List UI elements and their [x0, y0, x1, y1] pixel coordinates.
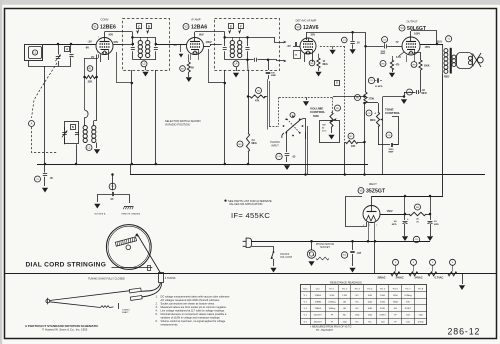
drum base line: [112, 267, 153, 269]
svg-text:CONV: CONV: [100, 18, 108, 22]
svg-text:DET-AVC-AF AMP: DET-AVC-AF AMP: [296, 20, 317, 23]
oscillator feedback hook: [85, 110, 89, 118]
wire bus link x130: [130, 164, 132, 175]
cord long run: [50, 291, 131, 301]
svg-text:measurements.: measurements.: [161, 323, 179, 327]
V3 heater leads: [304, 54, 306, 62]
svg-text:.047: .047: [357, 252, 362, 255]
svg-text:12BA6: 12BA6: [191, 25, 207, 31]
trimmer label A: [65, 47, 70, 52]
V2 grid-return arrow: [181, 44, 187, 46]
ground T2: [236, 67, 238, 71]
V5 heater drops: [368, 223, 370, 242]
T1 input wire from V1 plate: [123, 44, 133, 46]
svg-text:Pin 5: Pin 5: [380, 288, 386, 290]
svg-text:0Ω: 0Ω: [394, 308, 397, 310]
wire heater drop x375: [374, 241, 376, 273]
pointer bracket: [118, 303, 120, 309]
svg-text:35Z5GT: 35Z5GT: [314, 321, 323, 323]
svg-text:Line voltage maintained at 117: Line voltage maintained at 117 volts for…: [161, 309, 226, 313]
shield box dashed left: [278, 97, 280, 127]
wire loop down to bus: [44, 66, 46, 164]
trimmer capacitor: [70, 44, 72, 53]
svg-text:Pin 6: Pin 6: [393, 288, 399, 290]
capacitor C13 .05 chassis: [109, 183, 116, 190]
T3 secondary winding: [452, 55, 456, 59]
svg-text:47K: 47K: [255, 100, 260, 103]
wire V3 plate drop x365: [365, 32, 367, 92]
speaker cone: [473, 54, 482, 68]
wire AF line y96: [336, 96, 365, 98]
tone potentiometer: [378, 103, 380, 112]
svg-text:variation of ±15% in voltage a: variation of ±15% in voltage and resista…: [161, 316, 221, 320]
V3 grid resistor 10 MEG: [309, 60, 315, 66]
svg-text:-.5V: -.5V: [87, 40, 92, 44]
AC plug: [243, 241, 247, 246]
heater resistor 4: [448, 272, 457, 276]
wire cap top stub: [112, 183, 114, 190]
T1 secondary winding: [146, 40, 150, 44]
svg-text:25Ω: 25Ω: [355, 315, 359, 317]
svg-text:MFD: MFD: [392, 224, 397, 226]
V3 grid resistor box: [294, 51, 301, 59]
V4 grid resistor 500K: [411, 62, 417, 68]
wire plug to switch: [252, 247, 274, 253]
svg-text:25Ω: 25Ω: [342, 321, 346, 323]
svg-text:40Ω: 40Ω: [368, 308, 372, 310]
V2 screen lead: [194, 32, 196, 38]
svg-text:40%: 40%: [322, 131, 326, 133]
heater resistor 1: [391, 272, 400, 276]
wire filter drops: [404, 196, 406, 214]
wire AC return bus y273: [5, 273, 496, 275]
svg-text:Pin 1: Pin 1: [329, 288, 335, 290]
cord spring: [101, 306, 114, 308]
svg-text:34VAC: 34VAC: [415, 275, 423, 279]
line bypass cap .047: [350, 251, 354, 253]
shielded detector lead double line: [267, 79, 269, 130]
svg-text:VALUES OR APPLICATION.: VALUES OR APPLICATION.: [229, 202, 263, 206]
svg-text:1.: 1.: [156, 294, 158, 298]
scan edge band top: [0, 0, 500, 5]
T2 secondary winding: [238, 40, 242, 44]
wire 383 drop: [382, 97, 384, 175]
speaker voice coil: [468, 56, 472, 60]
wire plug to AC bus: [252, 241, 256, 243]
tone network box: [378, 127, 380, 138]
shield box dashed right: [332, 97, 334, 112]
svg-text:500K: 500K: [424, 66, 430, 68]
svg-text:TAP: TAP: [322, 124, 327, 127]
svg-text:750Ω: 750Ω: [393, 302, 399, 304]
wire AC bus y241: [251, 241, 430, 243]
svg-text:DIAL CORD STRINGING: DIAL CORD STRINGING: [26, 262, 107, 269]
svg-text:B: B: [72, 126, 74, 129]
svg-text:D: D: [148, 24, 150, 28]
svg-text:25Ω: 25Ω: [368, 315, 372, 317]
detector capacitor 100MMF: [248, 59, 254, 61]
svg-text:100V: 100V: [206, 40, 212, 44]
svg-text:Pin 3: Pin 3: [355, 288, 361, 290]
svg-text:3 TURNS: 3 TURNS: [165, 277, 176, 280]
svg-text:MEG: MEG: [370, 119, 376, 122]
svg-text:IN RADIO POSITION.: IN RADIO POSITION.: [165, 123, 191, 127]
V4 screen lead: [410, 31, 412, 37]
V4 plate lead BLU: [420, 44, 443, 46]
tube V2 12BA6: [187, 38, 204, 55]
svg-text:470K†: 470K†: [379, 315, 386, 317]
svg-text:MMF: MMF: [389, 152, 395, 154]
ground left chassis: [94, 204, 100, 209]
svg-text:Pin 4: Pin 4: [367, 288, 373, 290]
svg-text:95V: 95V: [109, 32, 114, 36]
electrolytic C11A 40MFD: [403, 221, 408, 223]
T1 bottom wire: [133, 59, 156, 61]
svg-text:A: A: [66, 48, 68, 51]
volume potentiometer R5: [330, 112, 333, 127]
AVC dashed vertical: [344, 46, 346, 142]
T1 core label L3: [141, 61, 147, 67]
heater resistor 3: [428, 272, 437, 276]
svg-text:150V: 150V: [387, 209, 393, 213]
ground AF return: [401, 99, 407, 104]
V1 screen lead: [104, 32, 106, 38]
V3 plate top lead: [306, 32, 308, 40]
svg-text:2.: 2.: [156, 301, 158, 305]
svg-text:MMF: MMF: [381, 53, 386, 55]
chassis hatch symbol: [124, 206, 134, 208]
ground phono cap: [284, 165, 290, 170]
T2 secondary capacitor: [247, 37, 249, 46]
V2 plate lead: [204, 46, 211, 48]
svg-text:G: G: [336, 81, 338, 84]
svg-text:500K: 500K: [313, 115, 319, 118]
svg-text:10Meg: 10Meg: [328, 308, 335, 310]
cord guide rect 2: [130, 295, 142, 300]
T2 secondary top wire to diode: [248, 37, 276, 39]
svg-text:OUTPUT: OUTPUT: [406, 20, 418, 24]
svg-text:CONTROL: CONTROL: [310, 110, 325, 114]
svg-text:22K: 22K: [88, 80, 93, 84]
T1 trimmer labels: [137, 24, 142, 29]
svg-text:12AV6: 12AV6: [303, 25, 319, 31]
svg-text:0Ω: 0Ω: [343, 308, 346, 310]
boxed label G: [335, 81, 340, 86]
svg-text:SEE PARTS LIST FOR ALTERNATE: SEE PARTS LIST FOR ALTERNATE: [228, 199, 272, 203]
tube V1 12BE6: [96, 38, 113, 55]
svg-text:1050: 1050: [329, 295, 335, 297]
wire C8 grid riser: [420, 70, 422, 92]
svg-text:IF AMP: IF AMP: [191, 18, 200, 22]
dial drum: [106, 225, 151, 270]
V5 cathode lead 150V: [380, 214, 405, 216]
svg-text:SELECTOR SWITCH SHOWN: SELECTOR SWITCH SHOWN: [165, 119, 201, 123]
svg-text:12AV6: 12AV6: [315, 307, 322, 310]
IF transformer T1 dashed box: [123, 19, 170, 71]
switch cluster label: [290, 113, 295, 118]
svg-text:MFD: MFD: [434, 224, 439, 226]
svg-text:5.3Meg: 5.3Meg: [404, 295, 412, 297]
svg-text:0Ω: 0Ω: [343, 302, 346, 304]
svg-text:3.5V: 3.5V: [396, 56, 401, 59]
svg-text:+: +: [407, 217, 409, 221]
svg-text:Pin 7: Pin 7: [405, 288, 411, 290]
V5 pin jumper loop: [346, 197, 367, 227]
svg-text:C: C: [138, 24, 140, 28]
dial cord tangent: [137, 234, 161, 274]
oscillator tuning capacitor C1B: [64, 127, 66, 130]
ground T1: [145, 67, 147, 70]
V4 screen drop: [436, 31, 438, 44]
svg-text:Pin 2: Pin 2: [342, 288, 348, 290]
svg-text:Measured values are from socke: Measured values are from socket pin to c…: [161, 305, 227, 309]
output transformer T3: [446, 36, 452, 42]
capacitor C2 .05: [35, 176, 41, 182]
svg-text:6.: 6.: [156, 319, 158, 323]
ground oscillator: [96, 143, 98, 149]
V3 grid capacitor: [293, 46, 300, 48]
svg-text:0.7VAC: 0.7VAC: [435, 275, 444, 279]
AVC dashed stub: [320, 46, 345, 48]
V2 heater leads: [190, 54, 192, 60]
loop antenna L1: [25, 45, 43, 61]
T2 core label L4: [233, 61, 239, 67]
C11 label: [413, 236, 419, 242]
svg-text:RECT: RECT: [369, 182, 377, 186]
svg-text:95V: 95V: [199, 32, 204, 36]
heater resistor 2: [409, 272, 418, 276]
svg-text:28VAC: 28VAC: [378, 275, 386, 279]
T2 trimmer labels: [229, 24, 234, 29]
svg-text:12BA6: 12BA6: [314, 301, 321, 304]
svg-text:© Howard W. Sams & Co., Inc: © Howard W. Sams & Co., Inc. 1955: [42, 328, 88, 332]
line bypass R10: [341, 252, 347, 258]
IF transformer T2 dashed box: [215, 19, 280, 71]
wire osc bottom to bus: [76, 144, 78, 164]
wire grid line y44: [43, 44, 97, 46]
svg-text:NC: NC: [356, 302, 360, 304]
gang link label: [29, 121, 35, 127]
T1 B+ drop: [140, 58, 142, 60]
speaker SP frame: [457, 53, 473, 69]
svg-text:50L6GT: 50L6GT: [314, 315, 323, 317]
svg-text:40Ω: 40Ω: [368, 295, 372, 297]
svg-text:3.: 3.: [156, 305, 158, 309]
svg-text:7V: 7V: [396, 41, 399, 44]
tap box: [320, 121, 340, 143]
wire B+ down from output transformer: [442, 194, 444, 196]
resistor R2 47K: [256, 88, 262, 94]
resistor R7 22K: [348, 133, 354, 139]
wire T1 legs to bus: [131, 70, 133, 164]
svg-text:5.: 5.: [156, 312, 158, 316]
V2 plate drop to T2: [208, 49, 210, 83]
oscillator trimmer box: [65, 122, 79, 144]
ground C2: [42, 188, 48, 193]
ground socket: [308, 261, 314, 266]
T1 output wire to V2 grid: [156, 44, 187, 46]
plate decoupling capacitor C7 .05: [342, 37, 348, 43]
T2 bottom wire: [225, 59, 248, 61]
svg-text:NC: NC: [343, 315, 347, 317]
svg-text:VOL CONT: VOL CONT: [280, 256, 293, 259]
svg-text:F: F: [240, 24, 242, 28]
T1 primary winding: [138, 40, 142, 44]
svg-text:BLU: BLU: [437, 40, 442, 43]
svg-text:470K: 470K: [380, 308, 386, 310]
V1 plate drop to T1: [116, 52, 118, 83]
dial cord post: [159, 273, 164, 283]
svg-text:Volume control at maximum, no-: Volume control at maximum, no-signal app…: [161, 319, 226, 323]
capacitor C10 .05: [276, 153, 282, 159]
svg-text:R10: R10: [343, 255, 346, 257]
wire osc coil top stub: [93, 121, 95, 126]
wire tone junctions: [363, 102, 366, 105]
svg-text:24Ω: 24Ω: [419, 315, 423, 317]
svg-text:NC: NC: [368, 321, 372, 323]
svg-text:RED: RED: [444, 76, 449, 79]
capacitor C9 5000MMF: [386, 132, 392, 138]
svg-text:REMOTE CHASSIS: REMOTE CHASSIS: [122, 213, 141, 216]
filter resistor R9: [415, 204, 421, 210]
ground AVC shield: [306, 97, 308, 100]
svg-text:-.5V: -.5V: [286, 44, 291, 48]
T2 primary winding: [230, 40, 234, 44]
V1 heater leads: [100, 54, 102, 62]
V1 plate lead: [113, 44, 123, 46]
ground line bypass: [349, 268, 355, 273]
tube V4 50L6GT: [402, 37, 420, 55]
svg-text:NC: NC: [356, 308, 360, 310]
svg-text:4.: 4.: [156, 309, 158, 313]
selector switch S1: [302, 125, 304, 127]
switch SW on volume control: [271, 252, 274, 259]
T1 primary capacitor: [132, 37, 134, 46]
svg-text:DC voltage measurements taken: DC voltage measurements taken with vacuu…: [161, 294, 231, 298]
resistor R1 22K: [84, 58, 86, 110]
tube V3 12AV6: [300, 38, 316, 54]
phono jack: [282, 133, 284, 138]
svg-text:OUTSIDE B-: OUTSIDE B-: [94, 214, 106, 216]
svg-text:MEG: MEG: [323, 64, 328, 66]
V4 cathode bypass cap C12: [368, 77, 374, 83]
svg-text:1050: 1050: [393, 295, 399, 297]
V1 cathode to oscillator: [94, 55, 97, 121]
svg-text:40Ω: 40Ω: [368, 302, 372, 304]
svg-text:1.5Ω: 1.5Ω: [342, 295, 347, 297]
V2 cathode resistor 68 ohm: [188, 54, 190, 62]
svg-text:NC: NC: [356, 321, 360, 323]
svg-text:SOCKET: SOCKET: [320, 246, 330, 249]
svg-text:1050: 1050: [380, 302, 386, 304]
wire loop bottom: [29, 61, 72, 67]
shield box dashed top: [279, 97, 333, 99]
svg-text:20 MFD: 20 MFD: [375, 86, 383, 88]
detector return cap: [268, 60, 270, 70]
svg-text:50L6GT: 50L6GT: [407, 26, 427, 32]
tuning capacitor C1A: [58, 44, 60, 55]
svg-text:-8V: -8V: [85, 46, 89, 50]
svg-text:SHAFT: SHAFT: [122, 311, 129, 314]
svg-text:470K†: 470K†: [405, 308, 412, 310]
svg-text:E: E: [230, 24, 232, 28]
T2 top wire: [225, 37, 248, 39]
svg-text:TP - TIE POINT: TP - TIE POINT: [316, 329, 333, 332]
T1 top wire: [133, 37, 156, 39]
svg-text:Item: Item: [303, 287, 307, 290]
coupling capacitor C8 .02MFD: [407, 89, 413, 95]
socket resistor: [316, 257, 329, 260]
shielded pair to AF: [305, 132, 307, 175]
V5 plate top lead: [371, 196, 373, 206]
T1 secondary capacitor: [155, 37, 157, 46]
wire B+ top rail: [372, 196, 444, 198]
svg-text:22K: 22K: [351, 145, 356, 148]
gang dashed link: [32, 63, 58, 118]
svg-text:12BE6: 12BE6: [100, 25, 116, 31]
resistor R6 270K: [355, 95, 361, 101]
V4 cathode resistor R8: [399, 52, 404, 56]
svg-text:MEG: MEG: [252, 143, 257, 145]
cord guide rect 1: [129, 288, 141, 293]
resistor R3 3.3 MEG AVC: [237, 141, 243, 147]
ground volume pot: [331, 127, 333, 133]
T2 primary capacitor: [224, 37, 226, 46]
svg-text:160V: 160V: [414, 32, 420, 36]
svg-text:MFD: MFD: [422, 92, 427, 95]
wire volume top to AF line: [333, 96, 336, 98]
wire B- bus y174: [130, 174, 485, 176]
svg-text:155V: 155V: [425, 46, 431, 49]
tone pot C9A label: [366, 110, 372, 116]
svg-text:TUNING GANG FULLY CLOSED: TUNING GANG FULLY CLOSED: [88, 278, 125, 281]
parts list note: [224, 200, 226, 202]
svg-text:PHONO: PHONO: [270, 140, 280, 144]
electrolytic C11B 30MFD: [428, 221, 433, 223]
T2 right leg down: [248, 70, 250, 133]
switch arm wires: [300, 119, 306, 140]
oscillator trimmer cap: [75, 132, 79, 134]
heater string end drop: [457, 274, 463, 285]
svg-text:34VAC: 34VAC: [396, 275, 404, 279]
wire B- bus y164: [37, 164, 368, 166]
svg-text:AC voltages measured with 1000: AC voltages measured with 1000 ohm/volt …: [161, 298, 221, 302]
svg-text:1050: 1050: [380, 295, 386, 297]
svg-text:286-12: 286-12: [448, 327, 481, 337]
svg-text:Nominal tolerance on component: Nominal tolerance on component values ma…: [161, 312, 227, 316]
oscillator coil L2: [83, 126, 87, 130]
wire T2 legs to bus: [224, 70, 226, 164]
svg-text:-1V: -1V: [173, 44, 177, 47]
svg-text:CONTROL: CONTROL: [385, 111, 400, 115]
svg-text:RESISTANCE READINGS: RESISTANCE READINGS: [330, 281, 362, 285]
drum slot hatched: [115, 237, 136, 247]
svg-text:47KΩ: 47KΩ: [418, 321, 424, 323]
svg-text:IF= 455KC: IF= 455KC: [231, 211, 270, 220]
diode load wire: [268, 60, 284, 61]
svg-text:NC: NC: [356, 295, 360, 297]
svg-text:90V: 90V: [114, 40, 119, 44]
svg-text:Socket connections are shown a: Socket connections are shown as bottom v…: [161, 301, 216, 305]
scan edge band left: [0, 0, 2, 344]
dial cord path: [141, 283, 161, 291]
cord eyelet: [46, 299, 50, 303]
svg-text:INPUT: INPUT: [271, 143, 279, 147]
capacitor C5 1000MMF: [382, 37, 388, 43]
wire AF to C8: [383, 96, 404, 98]
svg-text:35V: 35V: [311, 32, 316, 36]
svg-text:MMF: MMF: [271, 75, 277, 77]
